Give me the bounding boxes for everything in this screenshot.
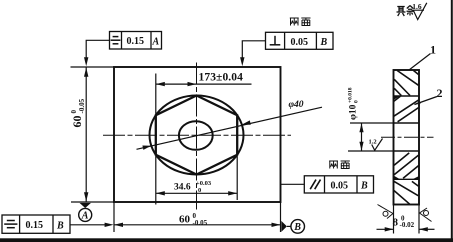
- bottom edge extension line: [71, 201, 114, 203]
- part label 2 leader: [415, 97, 438, 105]
- svg-text:8: 8: [393, 217, 399, 229]
- phi10 extension line bottom: [348, 150, 394, 152]
- 34.6 arrow left: [156, 191, 165, 195]
- section hole center line: [381, 136, 434, 138]
- svg-text:φ40: φ40: [289, 100, 304, 110]
- svg-text:0.05: 0.05: [331, 180, 349, 191]
- bottom 60 dimension line: [114, 224, 281, 226]
- F4 leader: [70, 224, 110, 226]
- vertical center line: [196, 63, 198, 210]
- 8 dim line right tail: [419, 228, 435, 230]
- F1 symmetry symbol: [111, 37, 121, 44]
- hatch band 5: [394, 181, 418, 204]
- F1 leader arrow: [84, 57, 88, 66]
- svg-text:60: 60: [70, 116, 84, 128]
- F3 label liangmian (two faces): [329, 161, 350, 169]
- svg-text:0.15: 0.15: [127, 36, 145, 47]
- F2 leader: [242, 41, 265, 60]
- 8 dim arrow right: [419, 227, 428, 231]
- svg-text:A: A: [81, 211, 89, 222]
- phi10 hole circle: [179, 121, 213, 150]
- svg-text:-0.02: -0.02: [400, 221, 415, 229]
- 34.6 value label: [174, 180, 212, 194]
- 8 dim extension line right: [418, 205, 420, 234]
- svg-text:0: 0: [198, 187, 201, 194]
- phi40 circle: [150, 96, 244, 175]
- recess wedge band2: [394, 96, 400, 100]
- svg-text:34.6: 34.6: [174, 183, 191, 193]
- svg-text:B: B: [320, 37, 328, 48]
- phi40 arrow lower: [142, 146, 151, 150]
- qiyu (rest) roughness note: [397, 2, 427, 20]
- F2 label liangmian (two faces): [290, 18, 311, 26]
- section view outline (side view): [394, 70, 420, 205]
- svg-text:173±0.04: 173±0.04: [199, 71, 244, 83]
- roughness symbol right face: [420, 208, 432, 222]
- phi40 leader line: [137, 107, 323, 149]
- F3 parallelism symbol: [310, 180, 320, 190]
- feature control frame F2 (perpendicularity 0.05 B): [266, 32, 334, 49]
- svg-text:0: 0: [354, 100, 360, 103]
- svg-text:1: 1: [430, 43, 436, 57]
- 8 dim arrow left: [385, 227, 394, 231]
- 8 dim value label: [393, 215, 415, 230]
- recess wedge band4 left: [394, 176, 401, 180]
- roughness symbol at hole 1.2: [369, 139, 383, 151]
- 34.6 arrow right: [228, 191, 237, 195]
- phi10 dimension line: [361, 123, 363, 151]
- svg-text:B: B: [360, 181, 368, 192]
- bottom 60 value label: [179, 212, 208, 227]
- right border line: [451, 0, 453, 239]
- 8 dim extension line left: [393, 205, 395, 234]
- section internal line hex bottom: [394, 178, 420, 180]
- phi10 arrow top: [359, 123, 363, 132]
- F2 leader arrow: [240, 57, 244, 66]
- svg-text:60: 60: [179, 213, 191, 225]
- svg-text:-0.05: -0.05: [193, 219, 208, 227]
- hexagon recess (34.6 across flats): [156, 96, 237, 175]
- 17.3 arrow left: [156, 82, 165, 86]
- svg-text:B: B: [56, 220, 64, 231]
- phi10 extension line top: [350, 122, 394, 124]
- svg-text:0.15: 0.15: [26, 220, 44, 231]
- roughness symbol left face: [378, 205, 394, 219]
- bottom 60 extension line left: [113, 202, 115, 232]
- feature control frame F3 (parallelism 0.05 B): [304, 176, 373, 193]
- 60 vertical value label: [70, 98, 86, 127]
- 34.6 dimension line: [156, 192, 237, 194]
- bottom border band: [0, 238, 453, 242]
- svg-text:φ10: φ10: [349, 104, 359, 120]
- feature control frame F1 (symmetry 0.15 A): [110, 32, 162, 50]
- F4 symmetry symbol: [4, 221, 17, 228]
- horizontal center line: [103, 134, 291, 136]
- svg-text:2: 2: [437, 86, 443, 100]
- hatch band 4: [394, 153, 419, 178]
- 17.3 dimension extension line: [155, 74, 157, 117]
- F1 leader: [86, 40, 109, 60]
- datum B symbol: [281, 220, 304, 234]
- svg-text:1.2: 1.2: [369, 139, 377, 146]
- section internal line hole bottom: [394, 150, 420, 152]
- phi10 arrow bottom: [359, 142, 363, 151]
- part label 2 arrow: [414, 101, 421, 105]
- bottom 60 arrow right: [272, 223, 281, 227]
- bottom 60 extension line right: [280, 202, 282, 232]
- svg-text:A: A: [152, 36, 160, 47]
- recess wedge band4 right: [413, 176, 420, 179]
- F4 leader arrow: [105, 223, 114, 227]
- 34.6 dimension extension line right: [236, 156, 238, 200]
- hatch band 1: [394, 71, 418, 96]
- 60 vertical arrow bottom: [84, 192, 88, 201]
- F3 leader: [281, 183, 305, 185]
- datum A symbol: [79, 203, 92, 222]
- hatch band 2: [394, 96, 419, 122]
- plate outline (60x60 square, front view): [114, 67, 281, 202]
- svg-text:0: 0: [70, 110, 78, 114]
- svg-text:0.05: 0.05: [291, 37, 309, 48]
- section internal line hole top: [394, 122, 420, 124]
- 17.3 arrow right: [188, 82, 197, 86]
- 60 vertical arrow top: [84, 68, 88, 77]
- feature control frame F4 (symmetry 0.15 B): [2, 215, 70, 233]
- 34.6 dimension extension line left: [155, 156, 157, 205]
- 8 dim line left tail: [377, 228, 394, 230]
- 60 vertical dimension line: [85, 67, 87, 202]
- phi10 value label rotated: [348, 87, 360, 120]
- svg-text:B: B: [293, 222, 301, 233]
- section internal line hex top: [394, 95, 420, 97]
- phi40 arrow upper: [242, 120, 251, 124]
- part label 1 leader: [409, 54, 431, 71]
- top edge extension line: [71, 66, 115, 68]
- svg-text:-0.05: -0.05: [78, 98, 86, 113]
- bottom 60 arrow left: [114, 223, 123, 227]
- F2 perpendicularity symbol: [270, 36, 281, 45]
- 17.3 dimension line: [156, 83, 252, 85]
